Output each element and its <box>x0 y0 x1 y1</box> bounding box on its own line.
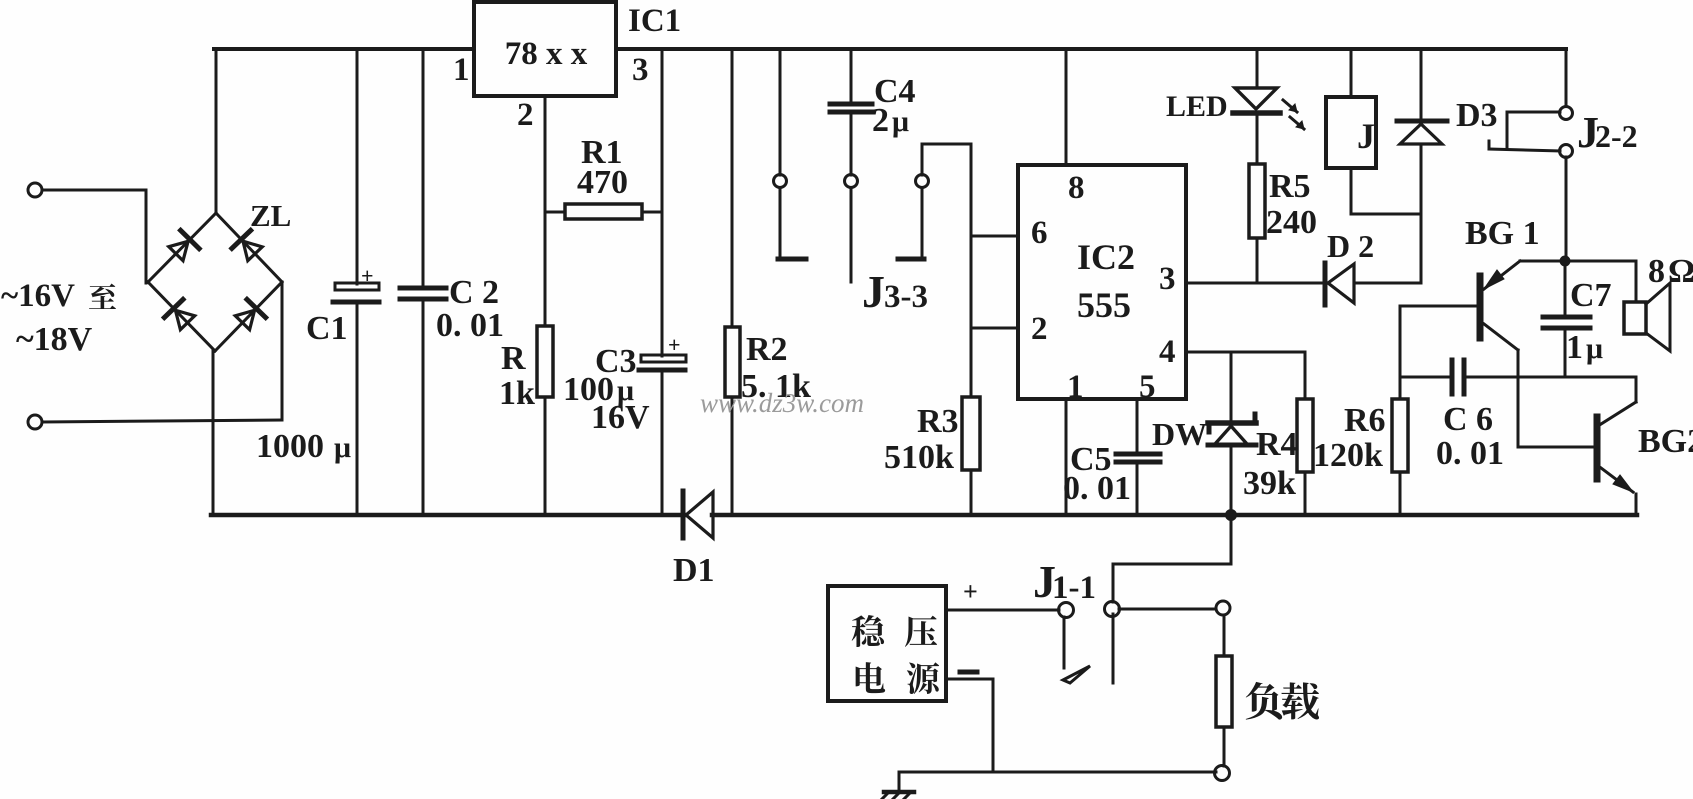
svg-text:1k: 1k <box>499 375 535 412</box>
svg-text:J: J <box>1357 116 1375 156</box>
resistor R3 (510k) <box>884 397 980 515</box>
svg-text:R: R <box>501 340 526 377</box>
svg-text:BG 1: BG 1 <box>1465 215 1540 252</box>
switch J1-1 <box>1033 556 1120 683</box>
svg-text:2: 2 <box>517 97 534 133</box>
svg-text:0. 01: 0. 01 <box>1436 435 1504 472</box>
terminal: AC input upper <box>28 183 146 197</box>
svg-text:1000: 1000 <box>256 428 324 465</box>
switch J2-2 <box>1489 49 1638 258</box>
load resistor (fu zai) <box>1215 601 1320 781</box>
svg-text:DW: DW <box>1152 416 1207 452</box>
svg-text:Ω: Ω <box>1668 253 1693 290</box>
wire: IC1 pin 2 line <box>544 96 547 326</box>
svg-text:www.dz3w.com: www.dz3w.com <box>700 388 864 418</box>
svg-text:6: 6 <box>1031 215 1048 251</box>
capacitor C1 (1000u) <box>256 49 379 515</box>
wire: supply - to ground run <box>946 679 993 772</box>
ground <box>882 772 914 799</box>
svg-text:μ: μ <box>334 431 351 464</box>
resistor R4 (39k) <box>1243 352 1313 515</box>
resistor R1 (470) <box>545 134 662 219</box>
svg-text:1: 1 <box>453 52 470 88</box>
zener diode DW <box>1152 352 1256 515</box>
svg-text:3-3: 3-3 <box>884 279 928 315</box>
svg-text:8: 8 <box>1068 170 1085 206</box>
svg-text:1: 1 <box>1067 369 1084 405</box>
svg-text:39k: 39k <box>1243 465 1296 502</box>
svg-text:78 x x: 78 x x <box>505 36 588 72</box>
svg-text:C 2: C 2 <box>449 274 499 311</box>
capacitor C3 (100u 16V) <box>563 49 686 515</box>
wire: 555 pin 1 to ground <box>1065 399 1068 515</box>
speaker 8 ohm <box>1624 253 1693 351</box>
transistor BG1 <box>1400 215 1540 447</box>
diode D3 <box>1397 49 1498 283</box>
wire: bridge - to bottom rail <box>212 351 215 515</box>
svg-text:1-1: 1-1 <box>1052 570 1096 606</box>
switch J3-3 contact c <box>862 144 971 317</box>
svg-text:D3: D3 <box>1456 97 1498 134</box>
capacitor C5 (0.01) <box>1063 399 1160 515</box>
label: ~16V to ~18V <box>1 278 116 358</box>
wire: +V top rail <box>214 47 1566 51</box>
wire: supply + to J1-1 <box>946 609 1059 612</box>
svg-text:ZL: ZL <box>250 198 291 233</box>
svg-text:IC2: IC2 <box>1077 237 1135 277</box>
svg-text:2: 2 <box>1031 311 1048 347</box>
bridge rectifier ZL <box>148 198 291 351</box>
svg-text:R3: R3 <box>917 403 959 440</box>
capacitor C2 (0.01) <box>400 49 504 515</box>
wire: 555 pin 3 output <box>1186 282 1324 285</box>
resistor R (1k) <box>499 326 553 515</box>
svg-text:0. 01: 0. 01 <box>436 307 504 344</box>
wire: bottom return run <box>899 771 1216 774</box>
svg-text:C1: C1 <box>306 310 348 347</box>
wire: J1-1 to load <box>1119 608 1216 611</box>
svg-text:J: J <box>862 266 885 317</box>
svg-text:+: + <box>361 263 374 288</box>
svg-text:470: 470 <box>577 164 628 201</box>
svg-text:3: 3 <box>632 52 649 88</box>
diode D1 <box>673 491 715 589</box>
svg-text:~18V: ~18V <box>16 321 93 358</box>
svg-text:μ: μ <box>892 105 909 138</box>
svg-text:C7: C7 <box>1570 277 1612 314</box>
svg-text:D1: D1 <box>673 552 715 589</box>
wire: node to 555 pins 6 and 2 <box>971 144 1018 397</box>
svg-text:510k: 510k <box>884 439 954 476</box>
svg-text:16V: 16V <box>591 399 650 436</box>
resistor R5 (240) <box>1249 164 1317 283</box>
capacitor C6 (0.01) <box>1436 360 1504 472</box>
svg-text:+: + <box>668 332 681 357</box>
wire: BG1 emitter bus <box>1400 376 1636 379</box>
wire: lower input to bridge right node <box>281 282 284 420</box>
node: ground rail to J1-1 <box>1113 510 1237 603</box>
wire: 555 pin 8 to top rail <box>1065 49 1068 165</box>
capacitor C7 (1u) <box>1543 266 1612 377</box>
IC U2 555 timer (IC2) <box>1018 165 1186 405</box>
terminal: AC input lower <box>28 415 282 429</box>
svg-text:240: 240 <box>1266 204 1317 241</box>
node: BG1 collector junction <box>1520 256 1636 266</box>
svg-text:5: 5 <box>1139 369 1156 405</box>
wire: ground bottom rail <box>211 513 1637 518</box>
relay coil J <box>1326 49 1421 214</box>
svg-text:+: + <box>963 577 978 606</box>
svg-text:LED: LED <box>1166 90 1228 123</box>
svg-text:1: 1 <box>1566 329 1583 366</box>
svg-text:R5: R5 <box>1269 168 1311 205</box>
LED indicator <box>1166 49 1304 164</box>
watermark <box>700 388 864 418</box>
svg-text:μ: μ <box>1586 332 1603 365</box>
svg-text:R2: R2 <box>746 331 788 368</box>
svg-text:D 2: D 2 <box>1327 228 1374 264</box>
resistor R6 (120k) <box>1313 306 1408 515</box>
svg-text:R6: R6 <box>1344 402 1386 439</box>
svg-text:3: 3 <box>1159 261 1176 297</box>
wire: upper input to bridge left node <box>145 190 148 283</box>
wire: bridge + to top rail <box>215 49 218 213</box>
svg-text:~16V: ~16V <box>1 278 75 314</box>
svg-text:2-2: 2-2 <box>1595 118 1638 154</box>
switch J3-3 contact a <box>774 49 807 259</box>
diode D2 <box>1325 228 1421 305</box>
IC U1 78xx regulator (IC1) <box>453 2 681 133</box>
transistor BG2 <box>1518 377 1693 515</box>
resistor R2 (5.1k) <box>725 49 811 515</box>
svg-text:555: 555 <box>1077 285 1131 325</box>
svg-text:IC1: IC1 <box>628 3 681 39</box>
svg-text:BG2: BG2 <box>1638 423 1693 460</box>
svg-text:0. 01: 0. 01 <box>1063 470 1131 507</box>
wire: 555 pin 4 line <box>1186 351 1305 354</box>
svg-text:8: 8 <box>1648 253 1665 290</box>
svg-text:4: 4 <box>1159 334 1176 370</box>
svg-text:120k: 120k <box>1313 437 1383 474</box>
capacitor C4 (2u) and J3-3 contact b <box>830 49 916 282</box>
regulated power supply box <box>828 577 978 701</box>
svg-text:2: 2 <box>872 102 889 139</box>
svg-text:R4: R4 <box>1256 426 1298 463</box>
svg-text:C 6: C 6 <box>1443 401 1493 438</box>
